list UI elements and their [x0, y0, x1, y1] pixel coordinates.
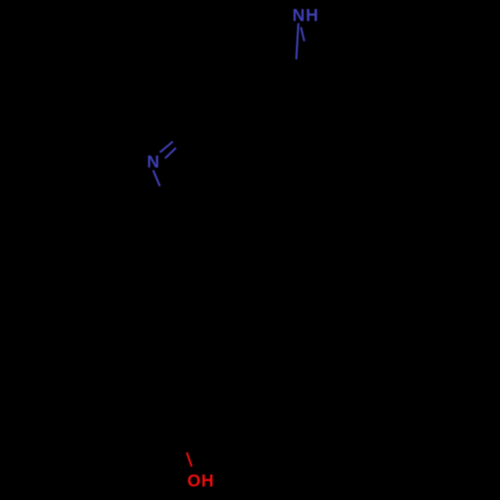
bond C=NH second line (N-colored half): [301, 27, 304, 41]
bond C-OH line (O-colored half): [187, 452, 192, 466]
bond C=NH main line (N-colored half): [296, 23, 298, 59]
bond N=C inner line (N-colored half, up-right): [165, 148, 176, 158]
bond N=C main line (N-colored half, up-right): [160, 142, 173, 153]
bond N-C single line (N-colored half, down): [153, 170, 160, 186]
svg-text:N: N: [147, 151, 159, 171]
svg-text:OH: OH: [187, 470, 214, 490]
svg-text:NH: NH: [292, 5, 319, 25]
